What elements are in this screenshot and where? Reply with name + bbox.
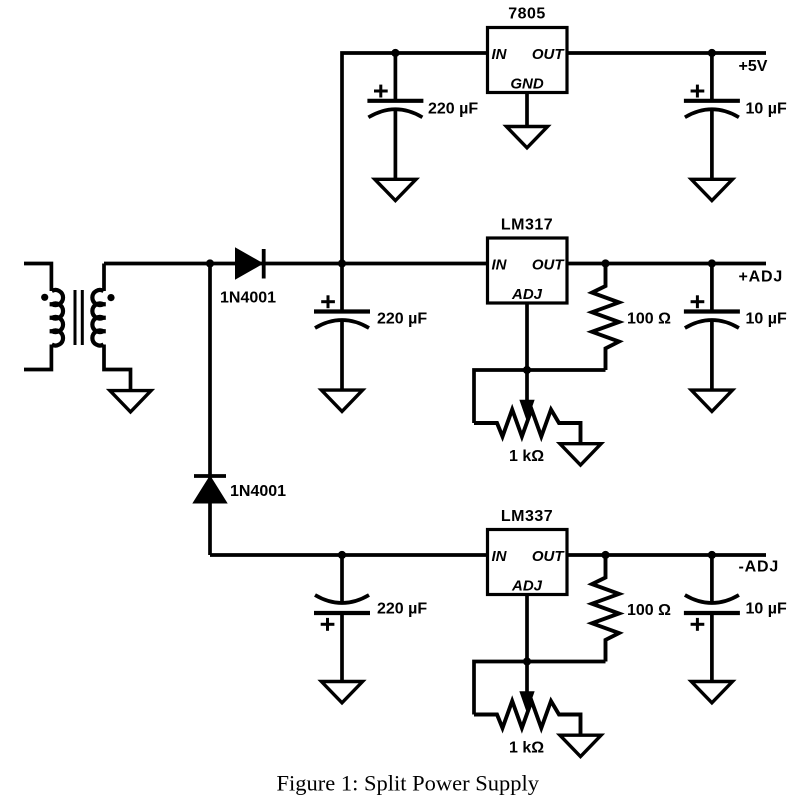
capacitor C4 10uF top wire [710,53,714,101]
diode D2 1N4001 cathode bar [194,474,226,478]
node junction +ADJ rail at R1 [601,259,609,267]
svg-text:220 µF: 220 µF [428,100,478,117]
node junction +ADJ rail at C5 [708,259,716,267]
svg-text:IN: IN [492,256,508,273]
svg-text:10 µF: 10 µF [746,310,787,327]
capacitor C2 top plate [314,309,370,313]
svg-text:10 µF: 10 µF [746,100,787,117]
ground (C2) [321,390,362,411]
svg-text:LM317: LM317 [501,217,553,234]
node junction top rail at C1 [391,49,399,57]
svg-text:1 kΩ: 1 kΩ [509,740,544,757]
ground (VR1) [560,444,601,465]
svg-text:Figure 1: Split Power Supply: Figure 1: Split Power Supply [277,771,540,796]
resistor R2 100 ohm [592,555,619,662]
node junction ADJ wiper U2 [523,366,531,374]
capacitor C3 bottom wire [340,613,344,682]
wiper arrow shaft VR1 [525,370,529,404]
wire middle rail from secondary to LM317 IN [104,262,488,266]
node junction ADJ wiper U3 [523,657,531,665]
wire ADJ horizontal run U2 [474,370,606,423]
capacitor C5 curved plate [685,320,739,328]
capacitor C4 bottom wire [710,111,714,180]
svg-text:+5V: +5V [739,58,768,75]
capacitor C1 top plate [367,99,423,103]
capacitor C5 bottom wire [710,321,714,390]
svg-text:OUT: OUT [532,46,566,63]
svg-text:220 µF: 220 µF [377,600,427,617]
transformer T1 primary winding [50,290,63,345]
wire 7805 GND pin [525,93,529,127]
transformer T1 secondary bottom lead wire [104,345,131,391]
resistor R1 100 ohm [592,264,619,371]
capacitor C6 plus sign [691,618,705,631]
transformer T1 secondary phase dot [107,294,114,301]
capacitor C2 plus sign [321,295,335,308]
potentiometer VR1 1k zigzag [474,410,581,444]
regulator U2 LM317 box [488,238,568,303]
regulator U3 LM337 box [488,530,568,595]
svg-text:IN: IN [492,548,508,565]
capacitor C1 curved plate [368,109,422,117]
transformer T1 primary top lead wire [24,264,51,292]
svg-text:IN: IN [492,46,508,63]
wire ADJ pin U2 [525,303,529,370]
transformer T1 secondary winding [92,290,105,346]
ground (VR2) [560,735,601,756]
svg-text:ADJ: ADJ [511,578,543,595]
svg-text:ADJ: ADJ [511,286,543,303]
capacitor C5 top plate [684,309,740,313]
node junction -ADJ rail at C6 [708,551,716,559]
capacitor C6 bottom plate [684,611,740,615]
svg-text:1N4001: 1N4001 [230,483,286,500]
ground (7805 GND) [506,127,547,148]
node junction at diode output x=342 [338,259,346,267]
capacitor C6 bottom wire [710,613,714,682]
capacitor C6 curved plate [685,595,739,603]
svg-text:LM337: LM337 [501,508,553,525]
svg-text:100 Ω: 100 Ω [627,310,671,327]
ground (C5) [691,390,732,411]
capacitor C1 plus sign [374,85,388,98]
ground (C3) [321,682,362,703]
svg-text:220 µF: 220 µF [377,310,427,327]
transformer T1 secondary top lead wire [102,264,106,292]
wiper arrow head VR2 [520,692,533,711]
transformer T1 primary phase dot [41,294,48,301]
ground (C1) [375,179,416,200]
svg-text:100 Ω: 100 Ω [627,602,671,619]
ground (C4) [691,179,732,200]
capacitor C1 bottom wire [394,111,398,180]
svg-text:1N4001: 1N4001 [220,290,276,307]
wire ADJ pin U3 [525,595,529,662]
svg-text:OUT: OUT [532,256,566,273]
svg-text:10 µF: 10 µF [746,600,787,617]
capacitor C3 plus sign [321,618,335,631]
capacitor C2 curved plate [315,320,369,328]
wire +5V output rail [567,51,766,55]
ground (transformer secondary) [110,391,151,412]
capacitor C1 220uF top wire [394,53,398,101]
potentiometer VR2 1k zigzag [474,701,581,735]
transformer T1 core [75,290,82,345]
capacitor C6 10uF top wire [710,555,714,603]
capacitor C5 plus sign [691,295,705,308]
capacitor C4 plus sign [691,85,705,98]
capacitor C3 curved plate [315,595,369,603]
transformer T1 primary bottom lead wire [24,345,51,370]
regulator U1 7805 box [488,28,568,93]
svg-text:OUT: OUT [532,548,566,565]
node junction +5V rail at C4 [708,49,716,57]
svg-text:7805: 7805 [508,5,546,22]
diode D2 triangle [195,478,225,502]
diode D1 1N4001 triangle [237,250,261,277]
wiper arrow shaft VR2 [525,662,529,696]
capacitor C4 top plate [684,99,740,103]
wire vertical rail x=342 up to top rail [342,53,488,264]
wire ADJ horizontal run U3 [474,662,606,715]
capacitor C5 10uF top wire [710,264,714,312]
svg-text:GND: GND [510,76,544,93]
node junction bottom rail at C3 [338,551,346,559]
diode D1 cathode bar [262,249,266,279]
wiper arrow head VR1 [520,401,533,420]
wire +ADJ output rail [567,262,766,266]
capacitor C3 220uF top wire [340,555,344,603]
capacitor C2 220uF top wire [340,264,344,312]
capacitor C4 curved plate [685,109,739,117]
capacitor C3 bottom plate [314,611,370,615]
wire -ADJ output rail [567,553,766,557]
capacitor C2 bottom wire [340,321,344,390]
svg-text:-ADJ: -ADJ [739,559,780,576]
svg-text:+ADJ: +ADJ [739,269,784,286]
wire vertical rail x=210 down to LM337 [208,264,212,556]
node junction -ADJ rail at R2 [601,551,609,559]
node junction at x=210 middle rail [206,259,214,267]
svg-text:1 kΩ: 1 kΩ [509,448,544,465]
wire bottom rail to LM337 IN [210,553,488,557]
ground (C6) [691,682,732,703]
